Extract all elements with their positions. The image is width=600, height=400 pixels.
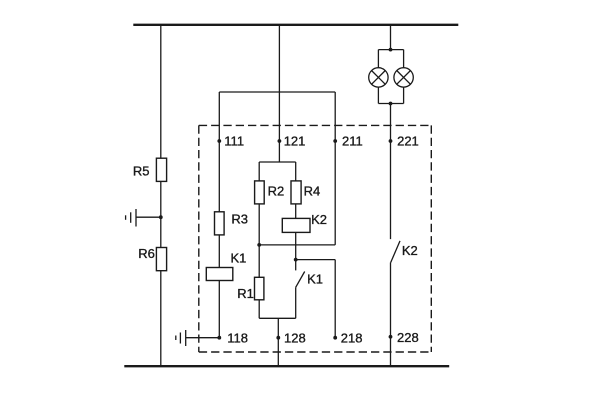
svg-text:R1: R1 (237, 286, 254, 301)
svg-text:111: 111 (224, 134, 244, 149)
svg-text:R6: R6 (138, 246, 155, 261)
svg-text:K1: K1 (231, 251, 247, 266)
svg-text:R3: R3 (231, 212, 248, 227)
svg-text:218: 218 (341, 330, 363, 345)
svg-text:121: 121 (284, 134, 306, 149)
svg-text:R5: R5 (133, 164, 150, 179)
svg-text:128: 128 (284, 330, 306, 345)
svg-text:K2: K2 (311, 212, 327, 227)
svg-text:K1: K1 (307, 272, 323, 287)
svg-text:221: 221 (397, 134, 419, 149)
svg-text:K2: K2 (402, 243, 418, 258)
svg-text:R2: R2 (268, 184, 285, 199)
svg-text:118: 118 (227, 330, 248, 345)
svg-text:R4: R4 (304, 184, 321, 199)
svg-text:228: 228 (397, 330, 419, 345)
svg-text:211: 211 (342, 134, 363, 149)
